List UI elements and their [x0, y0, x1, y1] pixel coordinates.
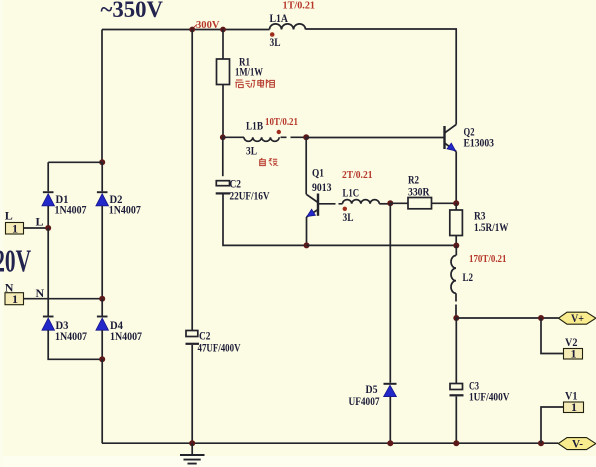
- port V-: [558, 436, 596, 450]
- svg-text:170T/0.21: 170T/0.21: [469, 253, 507, 265]
- inductor L1C: [343, 200, 380, 204]
- junction D5 bottom: [387, 440, 393, 446]
- svg-text:L1C: L1C: [343, 186, 360, 200]
- polarity dot L1C: [343, 207, 347, 211]
- polarity dot L1B: [277, 130, 281, 134]
- svg-text:V+: V+: [571, 311, 584, 325]
- resistor R1: [217, 59, 230, 85]
- wire C3 top lead: [455, 318, 457, 384]
- diode D5: [384, 384, 397, 443]
- value 自缘 (red CJK strokes): [260, 158, 278, 166]
- wire Q2 base: [306, 137, 443, 139]
- port V+: [559, 311, 596, 325]
- svg-text:1N4007: 1N4007: [55, 329, 87, 343]
- svg-text:1N4007: 1N4007: [109, 203, 141, 217]
- inductor L1B: [244, 137, 279, 141]
- wire bottom rail: [102, 442, 558, 444]
- capacitor C2 22UF: [216, 137, 231, 193]
- svg-text:N: N: [36, 286, 45, 300]
- wire emitter rail right (Q1 to R3 bottom): [307, 244, 457, 246]
- polarity dot L1A: [270, 32, 275, 37]
- svg-text:1T/0.21: 1T/0.21: [283, 0, 316, 12]
- junction ground node: [189, 440, 195, 446]
- wire Q1 base (dashed near coil): [319, 203, 343, 205]
- junction L1C right node: [387, 200, 393, 206]
- svg-text:3L: 3L: [270, 35, 281, 49]
- svg-text:1N4007: 1N4007: [55, 203, 87, 217]
- svg-text:1: 1: [571, 400, 577, 414]
- svg-text:1: 1: [12, 222, 18, 236]
- svg-text:UF4007: UF4007: [349, 394, 380, 408]
- svg-text:1: 1: [571, 347, 577, 361]
- svg-text:L: L: [5, 209, 13, 223]
- junction 300V node: [189, 27, 195, 33]
- wire N input: [24, 298, 103, 300]
- wire L to D3: [47, 228, 49, 316]
- wire D5 branch: [389, 203, 391, 382]
- diode D3: [42, 317, 102, 360]
- svg-text:L1B: L1B: [246, 119, 263, 133]
- wire L1C right stub: [379, 203, 390, 205]
- wire L1B right stub (dashed): [281, 136, 305, 138]
- diode D2: [96, 192, 109, 299]
- svg-text:1UF/400V: 1UF/400V: [469, 390, 510, 404]
- connector V2: [564, 347, 583, 361]
- junction N node: [99, 296, 105, 302]
- wire R1 bottom lead: [222, 85, 224, 138]
- wire left rail top: [101, 30, 103, 163]
- svg-text:22UF/16V: 22UF/16V: [230, 189, 270, 203]
- svg-text:3L: 3L: [343, 210, 354, 224]
- junction Q2 base node: [303, 134, 309, 140]
- svg-text:9013: 9013: [312, 180, 332, 194]
- junction R1 top: [220, 27, 226, 33]
- svg-text:L1A: L1A: [270, 11, 289, 25]
- wire L input: [24, 227, 49, 229]
- resistor R3 with leads: [450, 203, 463, 245]
- junction R2/R3/Q2 node: [453, 200, 459, 206]
- junction L1B left node: [220, 134, 226, 140]
- svg-text:~350V: ~350V: [101, 0, 164, 22]
- resistor R2 with leads: [390, 198, 456, 209]
- svg-text:3L: 3L: [246, 144, 257, 158]
- svg-text:300V: 300V: [196, 19, 220, 31]
- svg-text:1.5R/1W: 1.5R/1W: [474, 220, 509, 234]
- junction bridge bottom node: [99, 356, 105, 362]
- wire Q1 collector: [305, 138, 307, 195]
- wire bridge bottom to rail: [101, 359, 103, 443]
- junction L node: [45, 225, 51, 231]
- ground: [180, 443, 205, 463]
- svg-text:V-: V-: [572, 436, 583, 450]
- svg-text:330R: 330R: [408, 185, 430, 199]
- capacitor C2 47UF: [186, 331, 200, 444]
- wire R1 top lead: [222, 30, 224, 60]
- inductor L2 with leads: [451, 246, 456, 319]
- svg-text:L: L: [36, 215, 44, 229]
- svg-text:Q1: Q1: [312, 166, 324, 180]
- value 启动电阻 (red CJK strokes): [235, 79, 274, 87]
- junction R3 bottom / L2 top: [453, 243, 459, 249]
- connector V1: [564, 400, 584, 414]
- junction V2 tap: [538, 315, 544, 321]
- wire C2-47UF top lead: [191, 30, 193, 331]
- svg-text:1: 1: [12, 292, 18, 306]
- svg-text:10T/0.21: 10T/0.21: [265, 116, 298, 128]
- wire bridge top link: [48, 162, 102, 191]
- svg-text:1M/1W: 1M/1W: [235, 65, 263, 79]
- wire V+ rail: [456, 317, 558, 319]
- diode D4: [96, 299, 109, 360]
- wire top rail right segment to Q2 collector: [306, 29, 457, 125]
- wire L1B left stub: [223, 136, 244, 138]
- junction V1 tap: [538, 440, 544, 446]
- diode D1: [42, 192, 55, 228]
- junction V+ node: [453, 315, 459, 321]
- transistor Q2: [445, 125, 457, 152]
- wire V1 lead: [541, 407, 564, 443]
- connector N: [5, 292, 24, 306]
- junction Q1 emitter node: [304, 242, 310, 248]
- svg-text:47UF/400V: 47UF/400V: [198, 341, 241, 355]
- wire emitter rail left (C2 to Q1): [223, 195, 307, 246]
- wire V2 lead: [541, 318, 564, 354]
- svg-text:1N4007: 1N4007: [110, 329, 142, 343]
- transistor Q1: [306, 194, 318, 218]
- svg-text:E13003: E13003: [464, 136, 495, 150]
- connector L: [6, 222, 24, 236]
- wire Q2 emitter to R2/R3 node: [455, 152, 457, 204]
- wire top rail left segment: [102, 29, 270, 31]
- junction bridge top node: [99, 159, 105, 165]
- wire Q1 emitter: [306, 217, 308, 245]
- inductor L1A: [270, 24, 306, 30]
- svg-text:2T/0.21: 2T/0.21: [342, 169, 373, 181]
- wire D2 top lead: [101, 162, 103, 191]
- svg-text:L2: L2: [463, 270, 474, 284]
- svg-text:220V: 220V: [0, 243, 31, 279]
- node 300V tick: [193, 25, 198, 29]
- capacitor C3: [450, 384, 464, 444]
- junction C3 bottom: [453, 440, 459, 446]
